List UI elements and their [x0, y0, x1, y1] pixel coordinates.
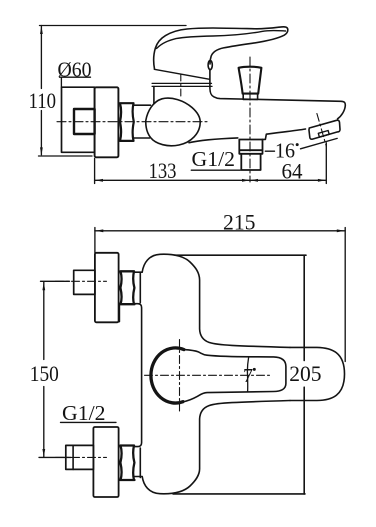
dim 110 top extension line [40, 25, 187, 27]
150 top extension line [41, 280, 70, 282]
dim line 133 and 64 [95, 179, 327, 181]
dim 150 arrows [42, 282, 45, 457]
spout box (tilted) [309, 120, 340, 139]
lever centerline horizontal [145, 374, 271, 376]
svg-text:205: 205 [289, 361, 321, 386]
body top edge and right edge [175, 255, 306, 494]
ball joint (egg shape) [146, 98, 200, 146]
arrows 133/64 [95, 179, 326, 182]
150 bottom extension line [39, 456, 71, 458]
set screw oval on dome edge [208, 60, 212, 69]
G1/2 leader underline (top drawing) [191, 169, 240, 171]
outlet/knob centerline [249, 57, 251, 182]
lower wing to bottom bell [134, 401, 290, 494]
dim 133 left extension [94, 159, 96, 184]
16 degree leader lines [265, 138, 337, 151]
lever head bold arc [151, 348, 184, 403]
connector between nut and ball [134, 105, 151, 138]
svg-text:Ø60: Ø60 [58, 57, 92, 81]
top union centerline [56, 280, 107, 282]
lever handle outline [154, 27, 288, 69]
hex nut (side view) [120, 103, 134, 141]
top hex nut [120, 271, 135, 304]
bottom flange rect [93, 427, 118, 497]
top flange rect [95, 253, 119, 322]
degree dot for 16 [296, 143, 299, 146]
spout centerline [317, 114, 326, 147]
svg-text:150: 150 [30, 361, 59, 386]
diverter knob cone [239, 67, 262, 94]
bottom fitting rect with thread line [66, 445, 94, 469]
barrel bottom edge left of outlet [189, 138, 238, 143]
bottom hex nut [120, 446, 135, 481]
diverter knob neck [243, 94, 257, 100]
dim 64 right extension [325, 143, 327, 184]
label Ø60 leader underline [60, 77, 91, 87]
svg-text:64: 64 [282, 158, 303, 183]
lever inner face line [157, 30, 286, 48]
svg-text:7: 7 [243, 365, 253, 387]
barrel bottom edge right of outlet with step [263, 129, 306, 139]
top wall-union bell [134, 254, 290, 347]
body bottom edge [173, 493, 305, 495]
svg-text:110: 110 [29, 88, 57, 113]
shower outlet block [239, 140, 262, 171]
lever crease line [247, 358, 248, 392]
G1/2 bottom underline [61, 421, 117, 423]
connecting tube between unions [119, 273, 141, 478]
dim 215 arrows [95, 229, 344, 232]
collar double lines [152, 83, 212, 86]
svg-text:215: 215 [223, 209, 256, 234]
lever bar outline [183, 350, 286, 402]
dim 110 arrowheads [40, 26, 43, 156]
wall fitting rectangle [62, 87, 95, 152]
dim 215 left extension [94, 228, 96, 253]
lever centerline vertical [179, 340, 181, 412]
top fitting rect [74, 270, 95, 294]
lever bottom diagonal edge [154, 69, 209, 79]
aerator small rect [318, 131, 329, 138]
thread inner line [72, 445, 74, 469]
dome left edge, corner, body top edge and right edge [210, 70, 345, 119]
dim 110 dimension line [40, 26, 42, 155]
bottom union centerline [56, 456, 107, 458]
dim 215 dimension line [95, 230, 345, 232]
right extension / 205 line [344, 228, 346, 362]
escutcheon flange rectangle [95, 87, 119, 157]
inlet inner square [74, 109, 95, 134]
cartridge centerline [180, 74, 182, 97]
svg-text:133: 133 [149, 158, 177, 183]
capsule right cap [290, 347, 345, 400]
svg-text:G1/2: G1/2 [192, 147, 236, 171]
dim 110 bottom extension line [39, 155, 93, 157]
svg-text:G1/2: G1/2 [62, 401, 106, 425]
neck left edge [153, 87, 155, 104]
degree dot for 7 [253, 368, 256, 371]
dim 150 dimension line [43, 282, 45, 458]
horizontal centerline [57, 121, 207, 123]
